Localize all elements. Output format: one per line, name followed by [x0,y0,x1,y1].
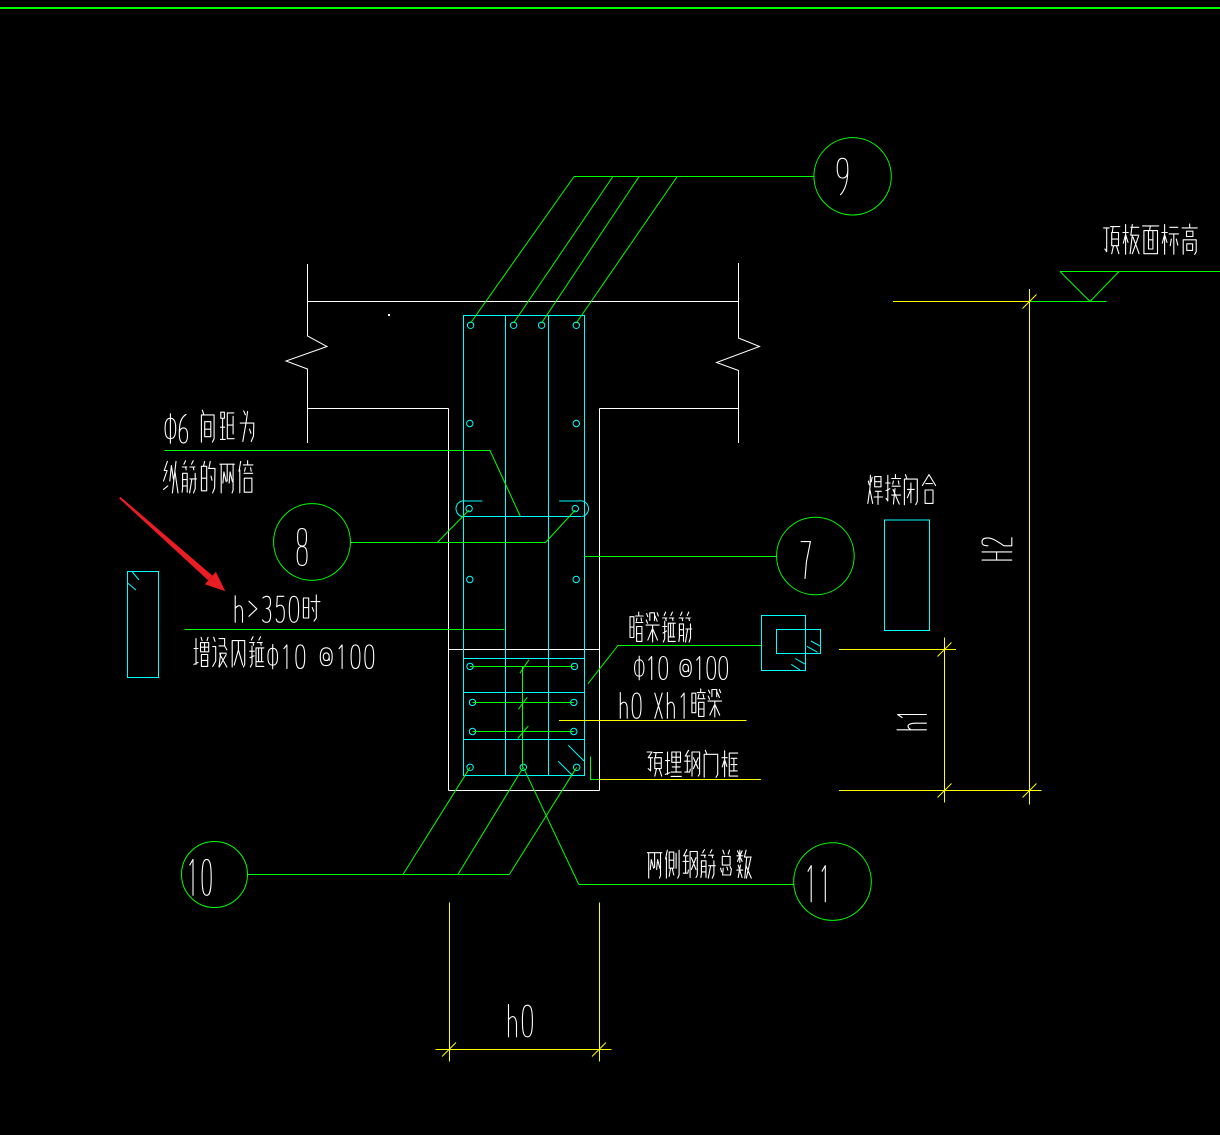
leader beam stirrup [588,646,761,684]
H2 dim line [1029,289,1031,805]
digit 8 [297,529,307,566]
stirrup row line 1 [464,658,585,660]
rebar circle top 3 [538,322,544,328]
beam size underline [559,720,747,722]
label h350 line1 [235,595,320,622]
label h350 line2 [194,637,374,669]
stray dot [388,314,390,316]
hatch mark 1 [568,745,584,761]
h0 extension left [449,903,451,1062]
bar3 end circle left [469,728,475,734]
rebar circle top 2 [510,322,516,328]
leader diag bottom-mid bar [458,767,523,874]
H2 tick top [1023,295,1037,309]
welded lap rect [885,520,930,631]
bar break slash 2 [518,697,527,709]
rebar circle mid left [467,420,473,426]
left wall hatch 1 [132,572,139,581]
label H2 (rotated) [982,538,1012,560]
H2 extension top yellow [893,301,1030,303]
h1 dim line [944,638,946,803]
balloon circle 7 [777,517,855,595]
rebar circle top 1 [467,322,473,328]
elevation triangle [1060,272,1119,302]
left break line [286,264,327,443]
bar2 end circle right [571,699,577,705]
slab top line [308,301,739,303]
weld square small [777,630,821,654]
balloon circle 10 [182,842,248,908]
fan diagonal 2 [514,177,613,324]
label h0 [509,1005,533,1037]
h0 dim line [436,1049,612,1051]
rebar circle below-hook right [573,576,579,582]
label phi6 spacing line2 [164,461,253,493]
label side bars total [647,850,751,879]
label h1 (rotated) [897,715,926,730]
weld hatch 1 [811,641,821,646]
leader diag bottom-right bar [509,767,576,874]
stirrup row line 3 [464,739,585,741]
hatch mark 2 [558,761,572,775]
slab underside right [600,408,739,410]
label beam stirrup spec [635,656,728,680]
left wall hatch 2 [128,583,136,590]
leader diag bottom-left bar [403,767,470,874]
hook circle right [572,505,578,511]
digit 9 [837,158,848,194]
fan diagonal 3 [542,177,640,324]
hook circle left [466,505,472,511]
door frame right jamb [599,409,601,791]
beam bar 1 [470,666,575,668]
leader circle 9 line [574,176,814,178]
weld hatch 4 [791,664,800,670]
beam bar 3 [473,731,574,733]
stirrup hook right [560,501,589,517]
bar1 end circle left [467,663,473,669]
leader circle 8 line [350,542,545,544]
stirrup row line 2 [464,692,585,694]
label 10 [190,859,211,895]
label phi6 spacing line1 [165,410,254,443]
bar2 end circle left [469,699,475,705]
h0 extension right [599,903,601,1062]
elevation level line [1060,271,1220,273]
bar break slash 3 [518,726,529,739]
rebar circle top 4 [573,322,579,328]
door frame bottom [449,790,600,792]
H2 tick bottom [1023,784,1037,798]
column inner line A [505,316,507,776]
leader diag to circle 11 [523,767,579,884]
leader circle 11 line [579,884,794,886]
bar1 end circle right [571,663,577,669]
bottom circle mid [520,764,526,770]
h1 tick bottom [938,784,952,798]
bottom extension line [839,790,1042,792]
label beam size [620,689,721,718]
column outer rect [464,316,585,776]
stirrup hook left [456,501,482,517]
balloon circle 11 [794,843,872,921]
bar break slash 1 [520,660,529,673]
balloon circle 9 [814,138,891,215]
rebar circle mid right [573,420,579,426]
weld hatch 3 [795,659,805,664]
digit 7 [801,542,810,579]
label 11 [808,866,825,902]
slab underside left [308,408,449,410]
elevation base green [1030,301,1107,303]
label top slab elev [1104,224,1198,254]
weld square big [762,616,806,671]
beam center vertical [522,667,524,768]
door frame divider (beam top) [449,649,600,651]
leader circle 7 line [585,556,777,558]
beam bar 2 [473,702,574,704]
bar3 end circle right [571,728,577,734]
stirrup close line [464,516,582,518]
top border line [0,7,1220,9]
balloon circle 8 [274,504,351,581]
left wall rect [128,572,159,678]
h1 extension top [839,649,956,651]
door frame left jamb [448,409,450,791]
door frame corner bracket [591,757,600,780]
leader phi6 line [165,451,521,517]
label embedded frame [647,750,738,777]
h0 tick left [442,1043,456,1057]
h1 tick top [938,643,952,657]
right break line [717,263,760,443]
fan diagonal 4 [576,177,677,324]
leader circle 10 line [248,874,510,876]
leader h350 line [185,629,505,631]
door frame leader yellow [599,779,761,781]
rebar circle below-hook left [467,576,473,582]
red annotation arrow [119,497,225,591]
leader branch to right hook [546,510,576,543]
label weld closed [868,475,936,505]
label beam stirrup text [630,612,692,642]
h0 tick right [592,1043,606,1057]
weld hatch 2 [807,646,818,652]
bottom circle left [467,764,473,770]
column inner line B [548,316,550,776]
bottom circle right [574,764,580,770]
fan diagonal 1 [471,177,574,324]
leader branch to left hook [437,510,469,543]
